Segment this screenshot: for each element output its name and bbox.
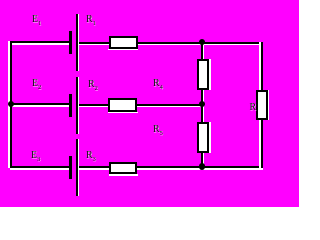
label R2 bbox=[88, 80, 98, 93]
wire: middle vertical branch bbox=[201, 42, 203, 167]
resistor R2 bbox=[108, 112, 138, 114]
battery E2 short plate bbox=[69, 94, 72, 117]
resistor R4 (vertical) bbox=[209, 59, 211, 90]
wire: top horizontal left segment bbox=[10, 43, 70, 45]
wire: bottom horizontal right segment bbox=[77, 168, 263, 170]
label E3 bbox=[31, 151, 40, 164]
resistor R5 (vertical) bbox=[209, 122, 211, 153]
resistor R1 bbox=[108, 49, 138, 51]
wire: middle horizontal right segment bbox=[77, 105, 203, 107]
battery E3 long plate bbox=[78, 139, 80, 196]
resistor R3 bbox=[109, 174, 138, 176]
wire: right vertical branch (load) bbox=[259, 42, 261, 168]
node: middle junction bbox=[199, 101, 206, 108]
node: left bus junction bbox=[8, 101, 15, 108]
label R1 bbox=[86, 15, 96, 28]
resistor R (load, vertical) bbox=[268, 90, 270, 120]
battery E1 short plate bbox=[69, 31, 72, 54]
node: bottom junction bbox=[199, 163, 206, 170]
label E1 bbox=[32, 15, 41, 28]
label R load bbox=[250, 103, 257, 113]
wire: top horizontal right segment bbox=[77, 43, 263, 45]
label R4 bbox=[153, 79, 163, 92]
label R5 bbox=[153, 125, 163, 138]
label R3 bbox=[86, 151, 96, 164]
battery E3 short plate bbox=[69, 156, 72, 179]
wire: bottom horizontal left segment bbox=[10, 168, 70, 170]
wire: middle horizontal left segment bbox=[10, 105, 70, 107]
battery E1 long plate bbox=[78, 14, 80, 71]
label E2 bbox=[32, 79, 41, 92]
battery E2 long plate bbox=[78, 77, 80, 134]
wire: left vertical bus bbox=[8, 41, 10, 168]
node: top junction bbox=[199, 39, 206, 46]
